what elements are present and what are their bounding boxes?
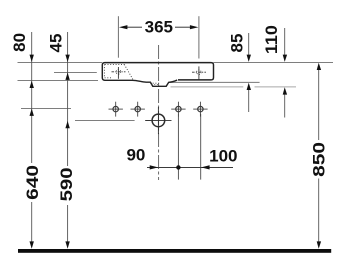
- wire 45 target line: [54, 72, 97, 74]
- svg-text:640: 640: [23, 165, 42, 200]
- wall fixing cross hole 2: [131, 102, 145, 117]
- dimension 850: [310, 63, 329, 249]
- svg-text:100: 100: [209, 147, 237, 166]
- fixing hole cross right (in basin): [192, 66, 206, 79]
- dimension 110: [262, 25, 287, 117]
- wire rim extension line right: [214, 62, 334, 64]
- centerline: [158, 45, 160, 180]
- fixing hole cross left (in basin): [112, 67, 126, 79]
- dimension chain 80 / 640: [10, 32, 42, 249]
- wire siphon underside extension (110 target): [171, 86, 244, 88]
- basin hidden inner outline (dotted): [104, 64, 160, 84]
- wall fixing cross hole 4: [193, 102, 207, 117]
- wire 590 target line stub: [146, 120, 151, 122]
- wire siphon underside extension right part: [255, 86, 297, 88]
- dimension chain 45 / 590: [47, 32, 77, 249]
- dimension 85: [227, 33, 251, 112]
- svg-text:85: 85: [227, 34, 246, 53]
- dimension 365: [118, 16, 198, 58]
- wire 590 target line: [75, 120, 135, 122]
- svg-text:90: 90: [126, 145, 145, 164]
- dimension 90 / 100: [126, 114, 237, 180]
- svg-text:590: 590: [57, 167, 76, 201]
- svg-text:110: 110: [262, 25, 281, 54]
- basin body outline: [102, 63, 213, 87]
- drain hole circle: [145, 107, 171, 134]
- wire 640 target line: [21, 108, 71, 110]
- svg-text:80: 80: [10, 33, 29, 52]
- wire 80 target line: [18, 80, 99, 82]
- wall fixing cross hole 1: [109, 102, 123, 117]
- floor line: [18, 249, 331, 253]
- svg-text:45: 45: [47, 34, 66, 53]
- wall fixing cross hole 3: [171, 102, 185, 117]
- wire basin underside extension (85 target): [169, 81, 260, 83]
- svg-text:365: 365: [145, 18, 173, 37]
- wire rim extension line left: [18, 62, 103, 64]
- svg-text:850: 850: [310, 142, 329, 177]
